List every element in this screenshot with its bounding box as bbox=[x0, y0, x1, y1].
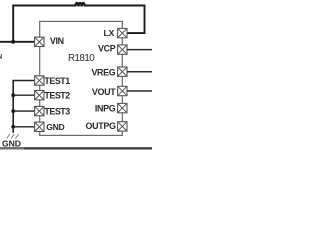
svg-text:TEST3: TEST3 bbox=[44, 107, 70, 117]
inductor L1 bbox=[75, 3, 84, 6]
wire GND pin bbox=[13, 126, 35, 128]
svg-text:INPG: INPG bbox=[95, 104, 116, 114]
wire VREG bbox=[127, 71, 152, 73]
wire TEST1 bbox=[12, 80, 34, 82]
node TEST3 junction bbox=[11, 109, 15, 113]
pin TEST1 bbox=[35, 76, 71, 86]
ground symbol bbox=[7, 134, 19, 138]
wire left riser to top bbox=[12, 5, 14, 42]
svg-text:VIN: VIN bbox=[50, 36, 64, 46]
svg-text:R1810: R1810 bbox=[68, 53, 95, 64]
svg-text:TEST2: TEST2 bbox=[44, 91, 70, 101]
wire top horizontal left segment bbox=[12, 5, 76, 7]
svg-text:VOUT: VOUT bbox=[92, 87, 116, 97]
IC U1 body bbox=[40, 21, 123, 135]
svg-text:LX: LX bbox=[103, 28, 114, 38]
pin VCP bbox=[98, 44, 127, 55]
wire TEST2 bbox=[13, 94, 35, 96]
pin VOUT bbox=[92, 86, 127, 97]
pin TEST3 bbox=[35, 106, 71, 116]
svg-text:VREG: VREG bbox=[91, 67, 115, 77]
wire bottom rule bbox=[0, 147, 152, 149]
pin INPG bbox=[95, 103, 127, 113]
svg-text:GND: GND bbox=[2, 139, 21, 149]
svg-text:OUTPG: OUTPG bbox=[86, 121, 116, 131]
wire VIN horizontal bbox=[0, 41, 35, 43]
svg-text:TEST1: TEST1 bbox=[44, 76, 70, 86]
wire right drop to LX bbox=[144, 5, 146, 33]
wire LX horizontal bbox=[127, 32, 145, 34]
node VIN junction bbox=[11, 40, 15, 44]
wire VOUT bbox=[127, 90, 152, 92]
node GND junction bbox=[11, 125, 15, 129]
wire left ground bus bbox=[12, 81, 14, 133]
wire VCP bbox=[127, 49, 152, 51]
pin TEST2 bbox=[35, 91, 71, 101]
pin VREG bbox=[91, 67, 127, 77]
svg-text:GND: GND bbox=[46, 122, 64, 132]
pin GND bbox=[35, 122, 65, 132]
wire top horizontal right segment bbox=[85, 5, 146, 7]
node TEST2 junction bbox=[11, 93, 15, 97]
wire TEST3 bbox=[13, 110, 35, 112]
svg-text:N: N bbox=[0, 54, 2, 61]
svg-text:VCP: VCP bbox=[98, 44, 116, 54]
pin VIN bbox=[35, 36, 64, 46]
pin LX bbox=[103, 28, 127, 38]
pin OUTPG bbox=[86, 121, 127, 131]
